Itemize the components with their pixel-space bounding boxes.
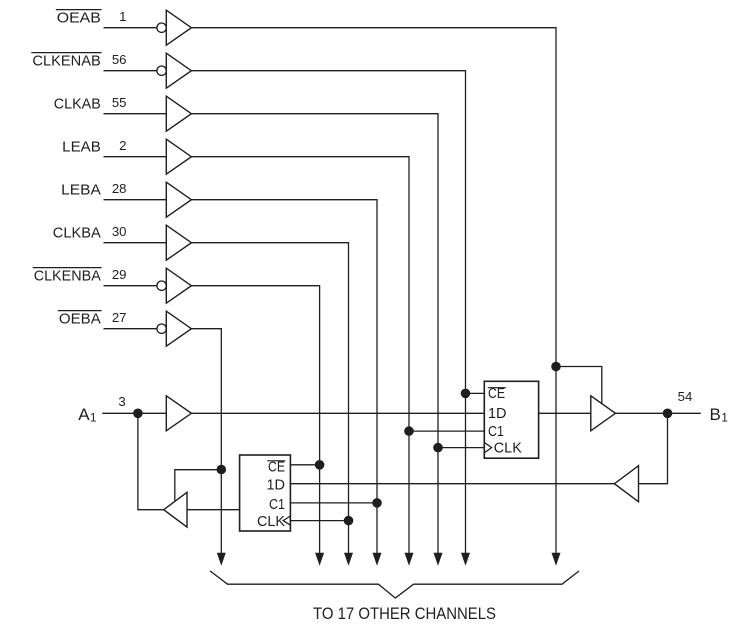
input label CLKENAB <box>31 52 101 69</box>
node B1 junction <box>663 409 673 419</box>
svg-text:54: 54 <box>678 389 693 404</box>
wire CLKENAB to U1 CE <box>466 392 485 394</box>
wire LEAB to U1 C1 <box>409 430 484 432</box>
U2 pin label CLK <box>257 514 285 530</box>
buffer CLKBA <box>166 225 191 260</box>
wire OEBA input <box>104 328 157 330</box>
wire CLKAB to U1 CLK <box>438 447 484 449</box>
inverter bubble OEAB <box>157 23 166 32</box>
svg-text:CLKENAB: CLKENAB <box>32 52 100 69</box>
wire B input buffer to lower flip-flop 1D <box>290 483 614 485</box>
buffer CLKENBA <box>166 268 191 303</box>
svg-text:TO 17 OTHER CHANNELS: TO 17 OTHER CHANNELS <box>313 604 496 623</box>
inverter bubble CLKENAB <box>157 66 166 75</box>
buffer CLKAB <box>166 96 191 131</box>
pin number 27 <box>112 310 127 325</box>
buffer OEAB <box>166 10 191 45</box>
wire U2 output to A driver <box>187 509 240 511</box>
wire A1 to upper flip-flop 1D <box>191 412 484 414</box>
wire CLKBA input <box>104 242 167 244</box>
svg-text:30: 30 <box>112 224 127 239</box>
input label LEAB <box>62 138 101 155</box>
U2 pin label CE <box>267 459 285 475</box>
wire CLKENAB output <box>191 71 465 554</box>
junction OEBA to A-driver enable <box>217 465 227 475</box>
svg-text:LEAB: LEAB <box>62 138 101 155</box>
wire LEBA input <box>104 199 167 201</box>
junction CLKAB to upper flip-flop CLK <box>433 443 443 453</box>
svg-text:LEBA: LEBA <box>61 181 101 198</box>
flip-flop U2 box <box>240 455 291 531</box>
buffer B output driver <box>591 396 616 431</box>
U1 pin label 1D <box>488 406 507 422</box>
arrow LEBA to other channels <box>373 553 382 566</box>
arrow OEBA to other channels <box>217 553 226 566</box>
wire OEAB input <box>104 27 157 29</box>
arrow LEAB to other channels <box>405 553 414 566</box>
svg-text:1: 1 <box>721 411 728 425</box>
wire CLKAB output <box>191 114 438 554</box>
U2 pin label C1 <box>269 497 285 513</box>
pin number 54 <box>678 389 693 404</box>
wire CLKENAB input <box>104 70 157 72</box>
pin number 55 <box>112 95 127 110</box>
arrow CLKAB to other channels <box>434 553 443 566</box>
junction CLKENAB to upper flip-flop CE <box>461 389 471 399</box>
svg-text:3: 3 <box>118 394 125 409</box>
pin number 3 <box>118 394 125 409</box>
svg-text:OEBA: OEBA <box>59 310 101 327</box>
input label CLKENBA <box>33 267 102 284</box>
wire OEBA enable to A driver <box>175 470 222 501</box>
svg-text:CE: CE <box>488 386 505 402</box>
pin number 56 <box>112 52 127 67</box>
buffer CLKENAB <box>166 53 191 88</box>
wire OEBA output <box>191 329 221 554</box>
input label CLKAB <box>54 95 101 112</box>
svg-text:28: 28 <box>112 181 127 196</box>
wire LEBA output <box>191 200 377 554</box>
junction LEBA to lower flip-flop C1 <box>372 498 382 508</box>
buffer A output driver <box>164 492 187 527</box>
input label A1 <box>78 405 97 424</box>
wire U2 C1 to LEBA <box>290 502 377 504</box>
wire CLKBA output <box>191 243 348 554</box>
wire U2 CLK to CLKBA <box>290 520 348 522</box>
svg-text:CLK: CLK <box>257 514 285 530</box>
U2 pin label 1D <box>267 478 286 494</box>
svg-text:29: 29 <box>112 267 127 282</box>
U1 pin label C1 <box>488 424 504 440</box>
inverter bubble OEBA <box>157 324 166 333</box>
input label LEBA <box>61 181 101 198</box>
svg-text:1D: 1D <box>488 406 507 422</box>
svg-text:CLKBA: CLKBA <box>53 224 101 241</box>
wire A1 input <box>102 412 166 414</box>
wire OEAB output <box>191 28 556 554</box>
input label OEAB <box>56 9 102 26</box>
pin number 28 <box>112 181 127 196</box>
wire CLKAB input <box>104 113 167 115</box>
arrow CLKENAB to other channels <box>461 553 470 566</box>
svg-text:27: 27 <box>112 310 127 325</box>
svg-text:1: 1 <box>119 9 126 24</box>
wire U1 output to B driver <box>539 412 591 414</box>
U2 clock chevron <box>283 516 290 525</box>
caption TO 17 OTHER CHANNELS <box>313 604 496 623</box>
wire U2 CE to CLKENBA <box>290 464 319 466</box>
wire B1 stub <box>668 412 701 414</box>
svg-text:56: 56 <box>112 52 127 67</box>
wire CLKENBA output <box>191 286 319 554</box>
U1 pin label CLK <box>494 440 522 456</box>
wire B driver to B1 <box>615 412 667 414</box>
svg-text:55: 55 <box>112 95 127 110</box>
svg-text:1: 1 <box>90 411 97 425</box>
wire OEAB enable to B driver <box>556 367 602 405</box>
wire A driver up to A1 node <box>138 413 164 509</box>
junction OEAB to B-driver enable <box>551 362 561 372</box>
svg-text:A: A <box>78 405 90 424</box>
svg-text:B: B <box>710 405 721 424</box>
pin number 29 <box>112 267 127 282</box>
junction LEAB to upper flip-flop C1 <box>404 426 414 436</box>
buffer B input <box>614 466 638 502</box>
svg-text:CLKENBA: CLKENBA <box>34 267 101 284</box>
wire CLKENBA input <box>104 285 157 287</box>
svg-text:C1: C1 <box>488 424 504 440</box>
svg-text:CE: CE <box>268 459 285 475</box>
output label B1 <box>710 405 729 424</box>
wire LEAB output <box>191 157 409 554</box>
U1 pin label CE <box>488 386 506 402</box>
buffer LEAB <box>166 139 191 174</box>
input label CLKBA <box>53 224 101 241</box>
wire B1 down to B input buffer <box>639 413 668 483</box>
arrow OEAB to other channels <box>552 553 561 566</box>
node A1 junction <box>133 409 143 419</box>
flip-flop U1 box <box>484 381 538 458</box>
svg-text:CLK: CLK <box>494 440 522 456</box>
pin number 30 <box>112 224 127 239</box>
pin number 2 <box>119 138 126 153</box>
junction CLKBA to lower flip-flop CLK <box>344 516 354 526</box>
svg-text:CLKAB: CLKAB <box>54 95 101 112</box>
buffer OEBA <box>166 311 191 346</box>
junction CLKENBA to lower flip-flop CE <box>315 460 325 470</box>
U1 clock chevron <box>484 442 491 453</box>
buffer LEBA <box>166 182 191 217</box>
input label OEBA <box>58 310 102 327</box>
svg-text:2: 2 <box>119 138 126 153</box>
arrow CLKBA to other channels <box>344 553 353 566</box>
svg-text:OEAB: OEAB <box>57 9 101 26</box>
pin number 1 <box>119 9 126 24</box>
arrow CLKENBA to other channels <box>315 553 324 566</box>
svg-text:C1: C1 <box>269 497 285 513</box>
buffer A1 input <box>166 396 191 431</box>
svg-text:1D: 1D <box>267 478 286 494</box>
inverter bubble CLKENBA <box>157 281 166 290</box>
brace to other channels <box>210 571 579 598</box>
wire LEAB input <box>104 156 167 158</box>
